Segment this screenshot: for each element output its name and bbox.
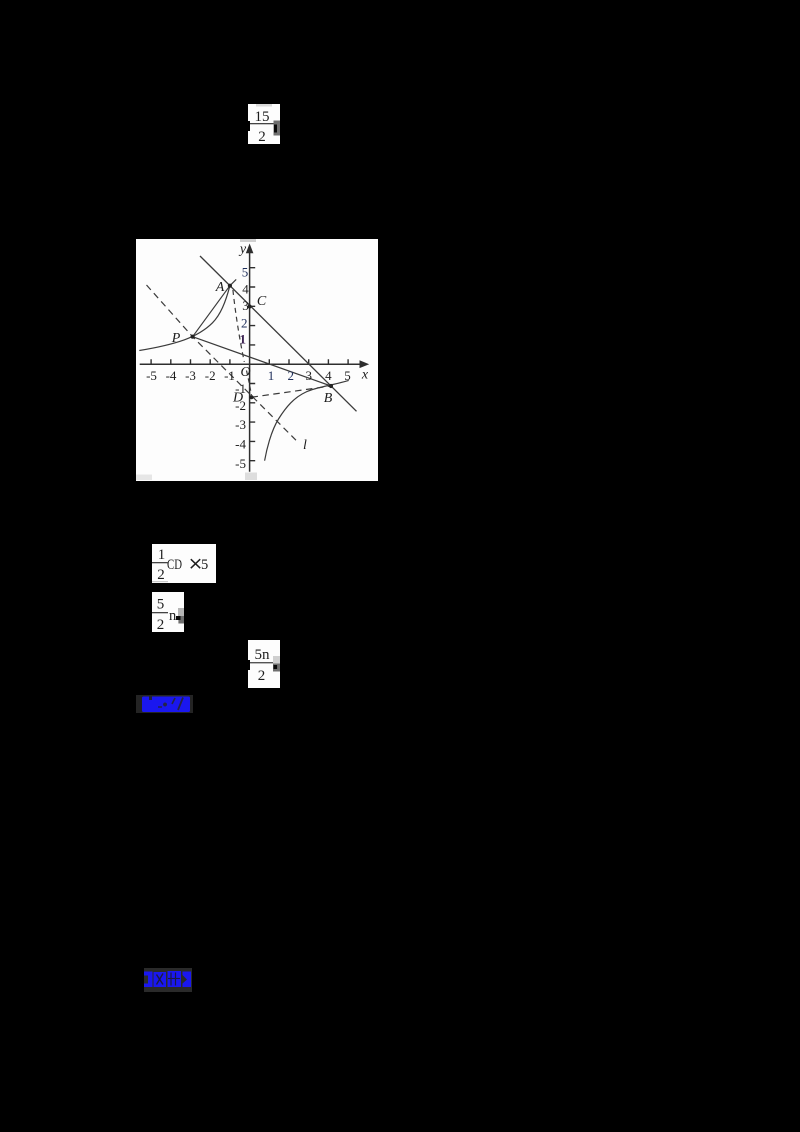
black mark inside artifact [274, 125, 277, 133]
svg-text:-4: -4 [235, 437, 246, 452]
coordinate graph figure [136, 239, 378, 481]
svg-text:1: 1 [158, 547, 166, 563]
blue glyph mass [142, 697, 190, 713]
blue marker text block 1 [136, 695, 193, 713]
dark glyph gaps [149, 697, 152, 701]
svg-text:1: 1 [240, 331, 247, 346]
svg-text:5: 5 [344, 368, 351, 383]
svg-text:3: 3 [305, 368, 312, 383]
svg-text:-3: -3 [235, 417, 246, 432]
svg-text:-1: -1 [224, 368, 235, 383]
x-axis [140, 363, 366, 365]
fraction (5/2)n [152, 592, 184, 632]
jpeg smudge top of axis [240, 239, 256, 242]
svg-text:1: 1 [268, 368, 275, 383]
svg-text:4: 4 [242, 282, 249, 297]
line PB [193, 337, 331, 386]
gray artifacts [178, 608, 184, 617]
svg-text:2: 2 [258, 129, 266, 144]
line AB (y=-x+3) [200, 256, 357, 411]
svg-text:B: B [324, 391, 333, 406]
svg-text:CD: CD [167, 557, 182, 573]
point C dot [248, 304, 252, 308]
svg-text:4: 4 [325, 368, 332, 383]
point D dot [249, 395, 253, 399]
gray artifact block right [274, 121, 281, 136]
svg-text:2: 2 [157, 617, 165, 632]
dark glyph gaps [157, 975, 164, 985]
svg-text:O: O [240, 365, 250, 380]
y-axis [249, 248, 251, 472]
svg-text:l: l [303, 438, 307, 453]
svg-text:2: 2 [288, 368, 295, 383]
hyperbola branch second quadrant through P and A [139, 279, 236, 350]
jpeg light smudge top [256, 104, 272, 107]
x ticks [151, 359, 348, 364]
svg-text:P: P [171, 331, 181, 346]
svg-text:2: 2 [157, 567, 165, 583]
svg-text:15: 15 [255, 109, 270, 125]
light gray patch top-right [273, 656, 280, 664]
blue bracket right [183, 972, 192, 988]
fraction (1/2)CD x 5 [152, 544, 216, 583]
point B dot [329, 384, 333, 388]
svg-text:3: 3 [242, 298, 249, 313]
blue bracket left [144, 972, 153, 988]
svg-text:-3: -3 [185, 368, 196, 383]
svg-text:-5: -5 [235, 456, 246, 471]
blue marker text block 2 [144, 968, 192, 992]
svg-text:A: A [215, 280, 225, 295]
svg-text:2: 2 [241, 315, 248, 330]
svg-text:-5: -5 [146, 368, 157, 383]
dashed line l [147, 285, 299, 443]
y ticks [250, 268, 256, 461]
hyperbola branch fourth quadrant through B [265, 380, 349, 460]
svg-text:C: C [257, 294, 267, 309]
svg-text:5n: 5n [255, 647, 271, 663]
svg-text:-2: -2 [205, 368, 216, 383]
svg-text:n: n [169, 608, 177, 624]
svg-text:-4: -4 [166, 368, 177, 383]
gray artifact block right [273, 664, 280, 672]
y-axis arrowhead [246, 244, 254, 254]
svg-text:5: 5 [201, 557, 208, 573]
blue glyph mass center [154, 972, 167, 987]
black notch left edge [247, 660, 250, 670]
svg-text:2: 2 [258, 668, 266, 684]
fraction 15/2 (white formula patch) [248, 104, 280, 144]
svg-text:y: y [238, 242, 247, 257]
point A dot [228, 284, 232, 288]
svg-text:-1: -1 [235, 381, 246, 396]
fraction 5n/2 [248, 640, 280, 688]
dashed continuation to D [247, 371, 252, 396]
svg-text:5: 5 [242, 264, 249, 279]
fraction bar [250, 123, 274, 124]
chord PA [193, 286, 230, 337]
x-axis arrowhead [360, 360, 370, 368]
point P dot [191, 335, 195, 339]
jpeg smudge bottom of axis [245, 473, 257, 481]
dashed segment D to B [252, 386, 332, 397]
svg-text:x: x [361, 368, 369, 383]
svg-text:5: 5 [157, 597, 165, 613]
jpeg smudge bottom-left corner [136, 475, 152, 481]
dashed curve from A toward origin [233, 290, 244, 362]
svg-text:-2: -2 [235, 398, 246, 413]
black notch left edge [247, 121, 250, 131]
